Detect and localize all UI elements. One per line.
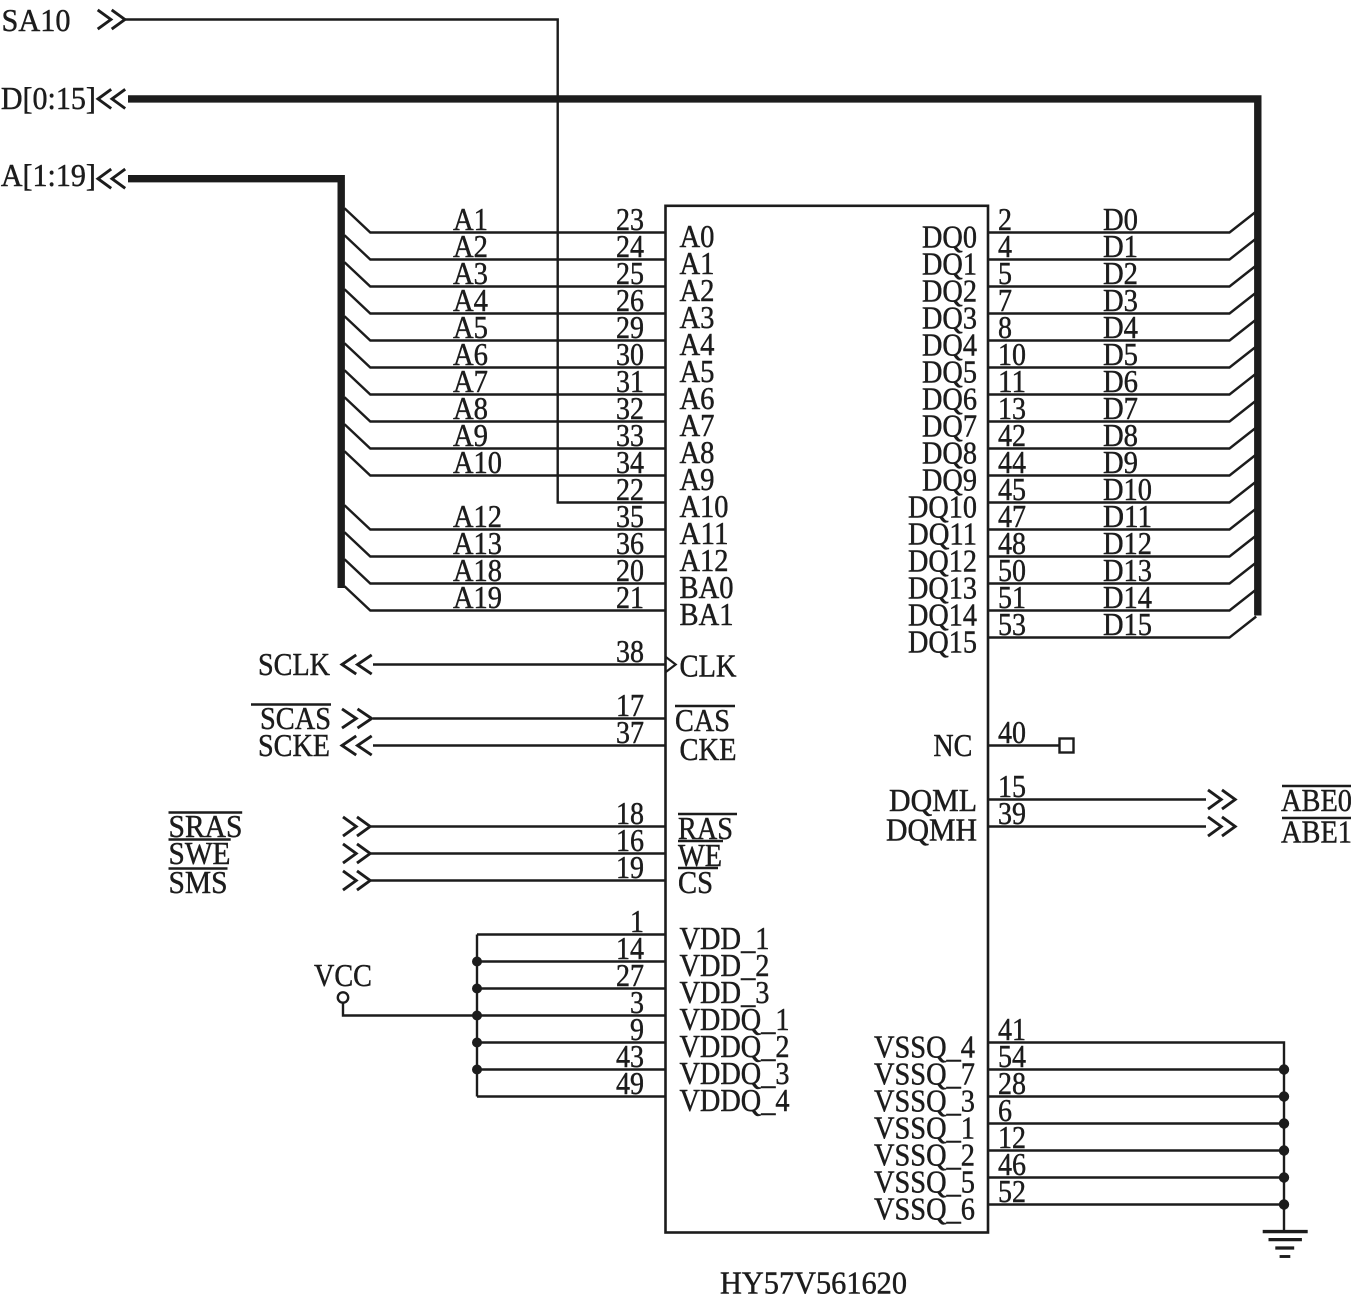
overline for WE [678, 840, 723, 843]
wire pin 48 to D bus (D12) [988, 536, 1256, 557]
wire A7 branch from A bus to pin 31 [345, 370, 666, 394]
wire VDD rail to pin 27 [477, 987, 666, 989]
port chevrons SMS (out) [343, 871, 356, 890]
wire pin 4 to D bus (D1) [988, 239, 1256, 260]
svg-text:A19: A19 [453, 580, 502, 615]
wire A4 branch from A bus to pin 26 [345, 289, 666, 313]
wire SCKE to pin 37 [373, 744, 666, 746]
svg-text:39: 39 [998, 796, 1026, 831]
wire VDD rail to pin 49 [477, 1095, 666, 1097]
svg-text:53: 53 [998, 607, 1026, 642]
wire pin 13 to D bus (D7) [988, 401, 1256, 422]
junction dot on ground rail [1279, 1172, 1289, 1182]
overline for ABE0 [1282, 785, 1351, 788]
port chevrons ABE0 (out) [1208, 790, 1221, 809]
svg-text:VSSQ_6: VSSQ_6 [874, 1192, 975, 1227]
wire SA10 to chip pin 22 [125, 20, 666, 503]
power symbol VCC [338, 992, 348, 1002]
svg-text:49: 49 [616, 1066, 644, 1101]
wire A18 branch from A bus to pin 20 [345, 559, 666, 583]
wire pin 2 to D bus (D0) [988, 212, 1256, 233]
wire VDD rail to pin 9 [477, 1041, 666, 1043]
svg-text:VCC: VCC [314, 958, 372, 993]
bus A[1:19] [128, 179, 341, 588]
svg-text:DQ15: DQ15 [908, 625, 977, 660]
wire A1 branch from A bus to pin 23 [345, 208, 666, 232]
wire A19 branch from A bus to pin 21 [345, 586, 666, 610]
wire A9 branch from A bus to pin 33 [345, 424, 666, 448]
port chevrons SCLK (in) [342, 655, 356, 674]
wire SWE to pin 16 [371, 852, 666, 854]
svg-text:ABE1: ABE1 [1281, 815, 1351, 850]
svg-text:D[0:15]: D[0:15] [1, 81, 96, 116]
svg-text:A10: A10 [453, 445, 502, 480]
svg-text:SMS: SMS [169, 865, 228, 900]
ground rail from VSSQ_4 [988, 1043, 1284, 1232]
IC U1 HY57V561620 body [666, 206, 989, 1233]
wire A2 branch from A bus to pin 24 [345, 235, 666, 259]
port chevrons SCAS (out) [342, 709, 356, 728]
ground symbol [1263, 1230, 1308, 1233]
junction dot on ground rail [1279, 1118, 1289, 1128]
svg-text:SCKE: SCKE [258, 728, 330, 763]
junction dot on VDD rail [472, 1065, 482, 1075]
wire A12 branch from A bus to pin 35 [345, 505, 666, 529]
port chevrons D[0:15] (in) [98, 89, 111, 108]
wire VDD rail to pin 3 [477, 1014, 666, 1016]
wire pin 28 to ground rail [988, 1095, 1284, 1097]
wire VCC to VDD rail [343, 1003, 477, 1016]
svg-text:NC: NC [933, 728, 972, 763]
wire pin 6 to ground rail [988, 1122, 1284, 1124]
svg-text:D15: D15 [1103, 607, 1152, 642]
VDD rail vertical [476, 935, 478, 1097]
svg-text:52: 52 [998, 1174, 1026, 1209]
wire pin 53 to D bus (D15) [988, 617, 1256, 638]
svg-text:CS: CS [678, 865, 713, 900]
svg-text:CKE: CKE [680, 732, 737, 767]
port chevrons ABE1 (out) [1208, 817, 1221, 836]
overline for SMS [169, 867, 228, 870]
svg-text:40: 40 [998, 715, 1026, 750]
svg-text:A[1:19]: A[1:19] [1, 158, 96, 193]
wire pin 10 to D bus (D5) [988, 347, 1256, 368]
wire pin 5 to D bus (D2) [988, 266, 1256, 287]
port chevrons SRAS (out) [343, 817, 356, 836]
wire pin 7 to D bus (D3) [988, 293, 1256, 314]
overline for SRAS [169, 811, 243, 814]
svg-text:DQMH: DQMH [886, 813, 977, 848]
wire pin 46 to ground rail [988, 1176, 1284, 1178]
svg-text:HY57V561620: HY57V561620 [720, 1266, 907, 1301]
wire VDD rail to pin 14 [477, 960, 666, 962]
wire pin 44 to D bus (D9) [988, 455, 1256, 476]
wire A13 branch from A bus to pin 36 [345, 532, 666, 556]
svg-text:ABE0: ABE0 [1281, 783, 1351, 818]
overline for ABE1 [1282, 817, 1351, 820]
overline for SCAS [251, 703, 331, 706]
wire pin 42 to D bus (D8) [988, 428, 1256, 449]
wire VDD rail to pin 43 [477, 1068, 666, 1070]
svg-text:SA10: SA10 [2, 3, 71, 38]
svg-text:BA1: BA1 [680, 597, 734, 632]
wire A5 branch from A bus to pin 29 [345, 316, 666, 340]
port chevrons SA10 (out) [98, 10, 111, 29]
junction dot on ground rail [1279, 1145, 1289, 1155]
wire pin 54 to ground rail [988, 1068, 1284, 1070]
svg-text:VDDQ_4: VDDQ_4 [680, 1083, 790, 1118]
wire A10 branch from A bus to pin 34 [345, 451, 666, 475]
svg-text:SCLK: SCLK [258, 647, 330, 682]
junction dot on VDD rail [472, 984, 482, 994]
wire DQMH to ABE1 [988, 825, 1206, 827]
wire A3 branch from A bus to pin 25 [345, 262, 666, 286]
wire SCLK to pin 38 [373, 663, 666, 665]
junction dot on VDD rail [472, 1038, 482, 1048]
overline for RAS [678, 813, 737, 816]
wire pin 52 to ground rail [988, 1203, 1284, 1205]
bus D[0:15] [128, 99, 1258, 616]
wire pin 50 to D bus (D13) [988, 563, 1256, 584]
wire pin 11 to D bus (D6) [988, 374, 1256, 395]
wire A6 branch from A bus to pin 30 [345, 343, 666, 367]
wire DQML to ABE0 [988, 798, 1206, 800]
wire pin 45 to D bus (D10) [988, 482, 1256, 503]
wire SCAS to pin 17 [373, 717, 666, 719]
port chevrons SCKE (in) [342, 736, 356, 755]
junction dot on VDD rail [472, 1011, 482, 1021]
overline for SWE [169, 838, 231, 841]
junction dot on ground rail [1279, 1199, 1289, 1209]
svg-text:37: 37 [616, 715, 644, 750]
port chevrons A[1:19] (in) [98, 169, 111, 188]
wire VDD rail to pin 1 [477, 933, 666, 935]
clock input symbol at CLK [666, 657, 676, 673]
wire A8 branch from A bus to pin 32 [345, 397, 666, 421]
port chevrons SWE (out) [343, 844, 356, 863]
svg-text:CLK: CLK [680, 649, 737, 684]
junction dot on ground rail [1279, 1091, 1289, 1101]
no-connect terminator square [1060, 739, 1074, 753]
wire pin 47 to D bus (D11) [988, 509, 1256, 530]
svg-text:21: 21 [616, 580, 644, 615]
wire SMS to pin 19 [371, 879, 666, 881]
junction dot on VDD rail [472, 957, 482, 967]
overline for CS [678, 867, 718, 870]
wire SRAS to pin 18 [371, 825, 666, 827]
wire pin 51 to D bus (D14) [988, 590, 1256, 611]
wire pin 40 NC [988, 744, 1060, 746]
svg-text:38: 38 [616, 634, 644, 669]
overline for CAS [675, 705, 735, 708]
junction dot on ground rail [1279, 1064, 1289, 1074]
wire pin 8 to D bus (D4) [988, 320, 1256, 341]
wire pin 12 to ground rail [988, 1149, 1284, 1151]
svg-text:19: 19 [616, 850, 644, 885]
